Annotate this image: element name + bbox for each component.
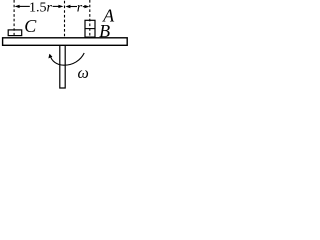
background [0, 0, 129, 91]
dashed centerline left (through C) [13, 0, 15, 36]
svg-text:1.5r: 1.5r [29, 1, 53, 16]
dimension arrow r left segment [69, 6, 77, 8]
block C [8, 30, 22, 36]
rotation shaft [60, 46, 65, 89]
svg-text:r: r [77, 0, 83, 15]
svg-text:ω: ω [78, 65, 89, 82]
dimension arrow r right segment [83, 6, 86, 8]
dimension arrow 1.5r left segment [19, 5, 30, 7]
dashed centerline middle (rotation axis) [64, 1, 66, 38]
horizontal bar (rotating beam) [3, 38, 128, 46]
svg-text:B: B [99, 21, 110, 41]
svg-text:C: C [24, 16, 37, 36]
rotation arc arrow [50, 53, 84, 65]
dashed centerline right (through A,B) [89, 0, 91, 38]
blocks A and B (stacked) [85, 20, 95, 37]
dimension arrow 1.5r right segment [53, 5, 60, 7]
